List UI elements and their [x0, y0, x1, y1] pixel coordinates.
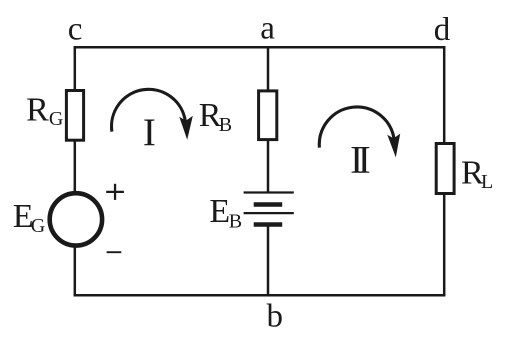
svg-text:B: B: [219, 114, 232, 136]
label RB: [199, 97, 232, 136]
node b label: [267, 299, 284, 335]
svg-text:d: d: [434, 12, 451, 48]
wire top c-a-d: [74, 46, 446, 49]
wire c to RG top: [74, 46, 77, 90]
label RG: [26, 92, 63, 130]
svg-text:II: II: [350, 138, 370, 181]
wire RB bottom to EB top plate: [267, 140, 270, 193]
label EB: [209, 193, 242, 233]
battery EB long plate 2: [244, 212, 294, 214]
label RL: [461, 155, 493, 193]
svg-text:I: I: [143, 111, 156, 154]
svg-text:E: E: [209, 193, 230, 230]
loop II arrow arc: [319, 107, 394, 148]
battery EB long plate 1: [244, 191, 294, 193]
wire EB bottom plate to node b: [267, 225, 270, 297]
loop I arrowhead: [179, 116, 193, 140]
svg-text:G: G: [31, 215, 45, 237]
wire a to RB top: [267, 46, 270, 91]
resistor RL body: [436, 144, 454, 194]
resistor RG body: [66, 91, 83, 141]
wire bottom left-b-right: [74, 294, 446, 297]
svg-text:L: L: [481, 171, 493, 193]
svg-text:c: c: [68, 12, 83, 48]
svg-text:G: G: [49, 108, 63, 130]
minus polarity mark of EG: [107, 251, 122, 253]
loop II arrowhead: [387, 134, 400, 158]
loop current label II: [350, 138, 370, 181]
loop I arrow arc: [112, 89, 186, 131]
resistor RB body: [259, 91, 277, 140]
wire EG bottom to bottom rail: [74, 246, 77, 296]
wire RL bottom to bottom rail: [443, 194, 446, 297]
loop current label I: [143, 111, 156, 154]
source EG circle: [50, 193, 102, 245]
battery EB short plate 2: [254, 222, 283, 227]
svg-text:a: a: [260, 10, 275, 46]
label EG: [13, 198, 45, 237]
svg-text:b: b: [267, 299, 284, 335]
wire d to RL top: [443, 46, 446, 143]
node a label: [260, 10, 275, 46]
plus polarity mark of EG: [106, 184, 124, 200]
svg-text:B: B: [229, 211, 242, 233]
svg-text:R: R: [26, 92, 49, 129]
wire RG bottom to EG top: [74, 141, 77, 194]
node c label: [68, 12, 83, 48]
node d label: [434, 12, 451, 48]
battery EB short plate 1: [254, 202, 283, 207]
